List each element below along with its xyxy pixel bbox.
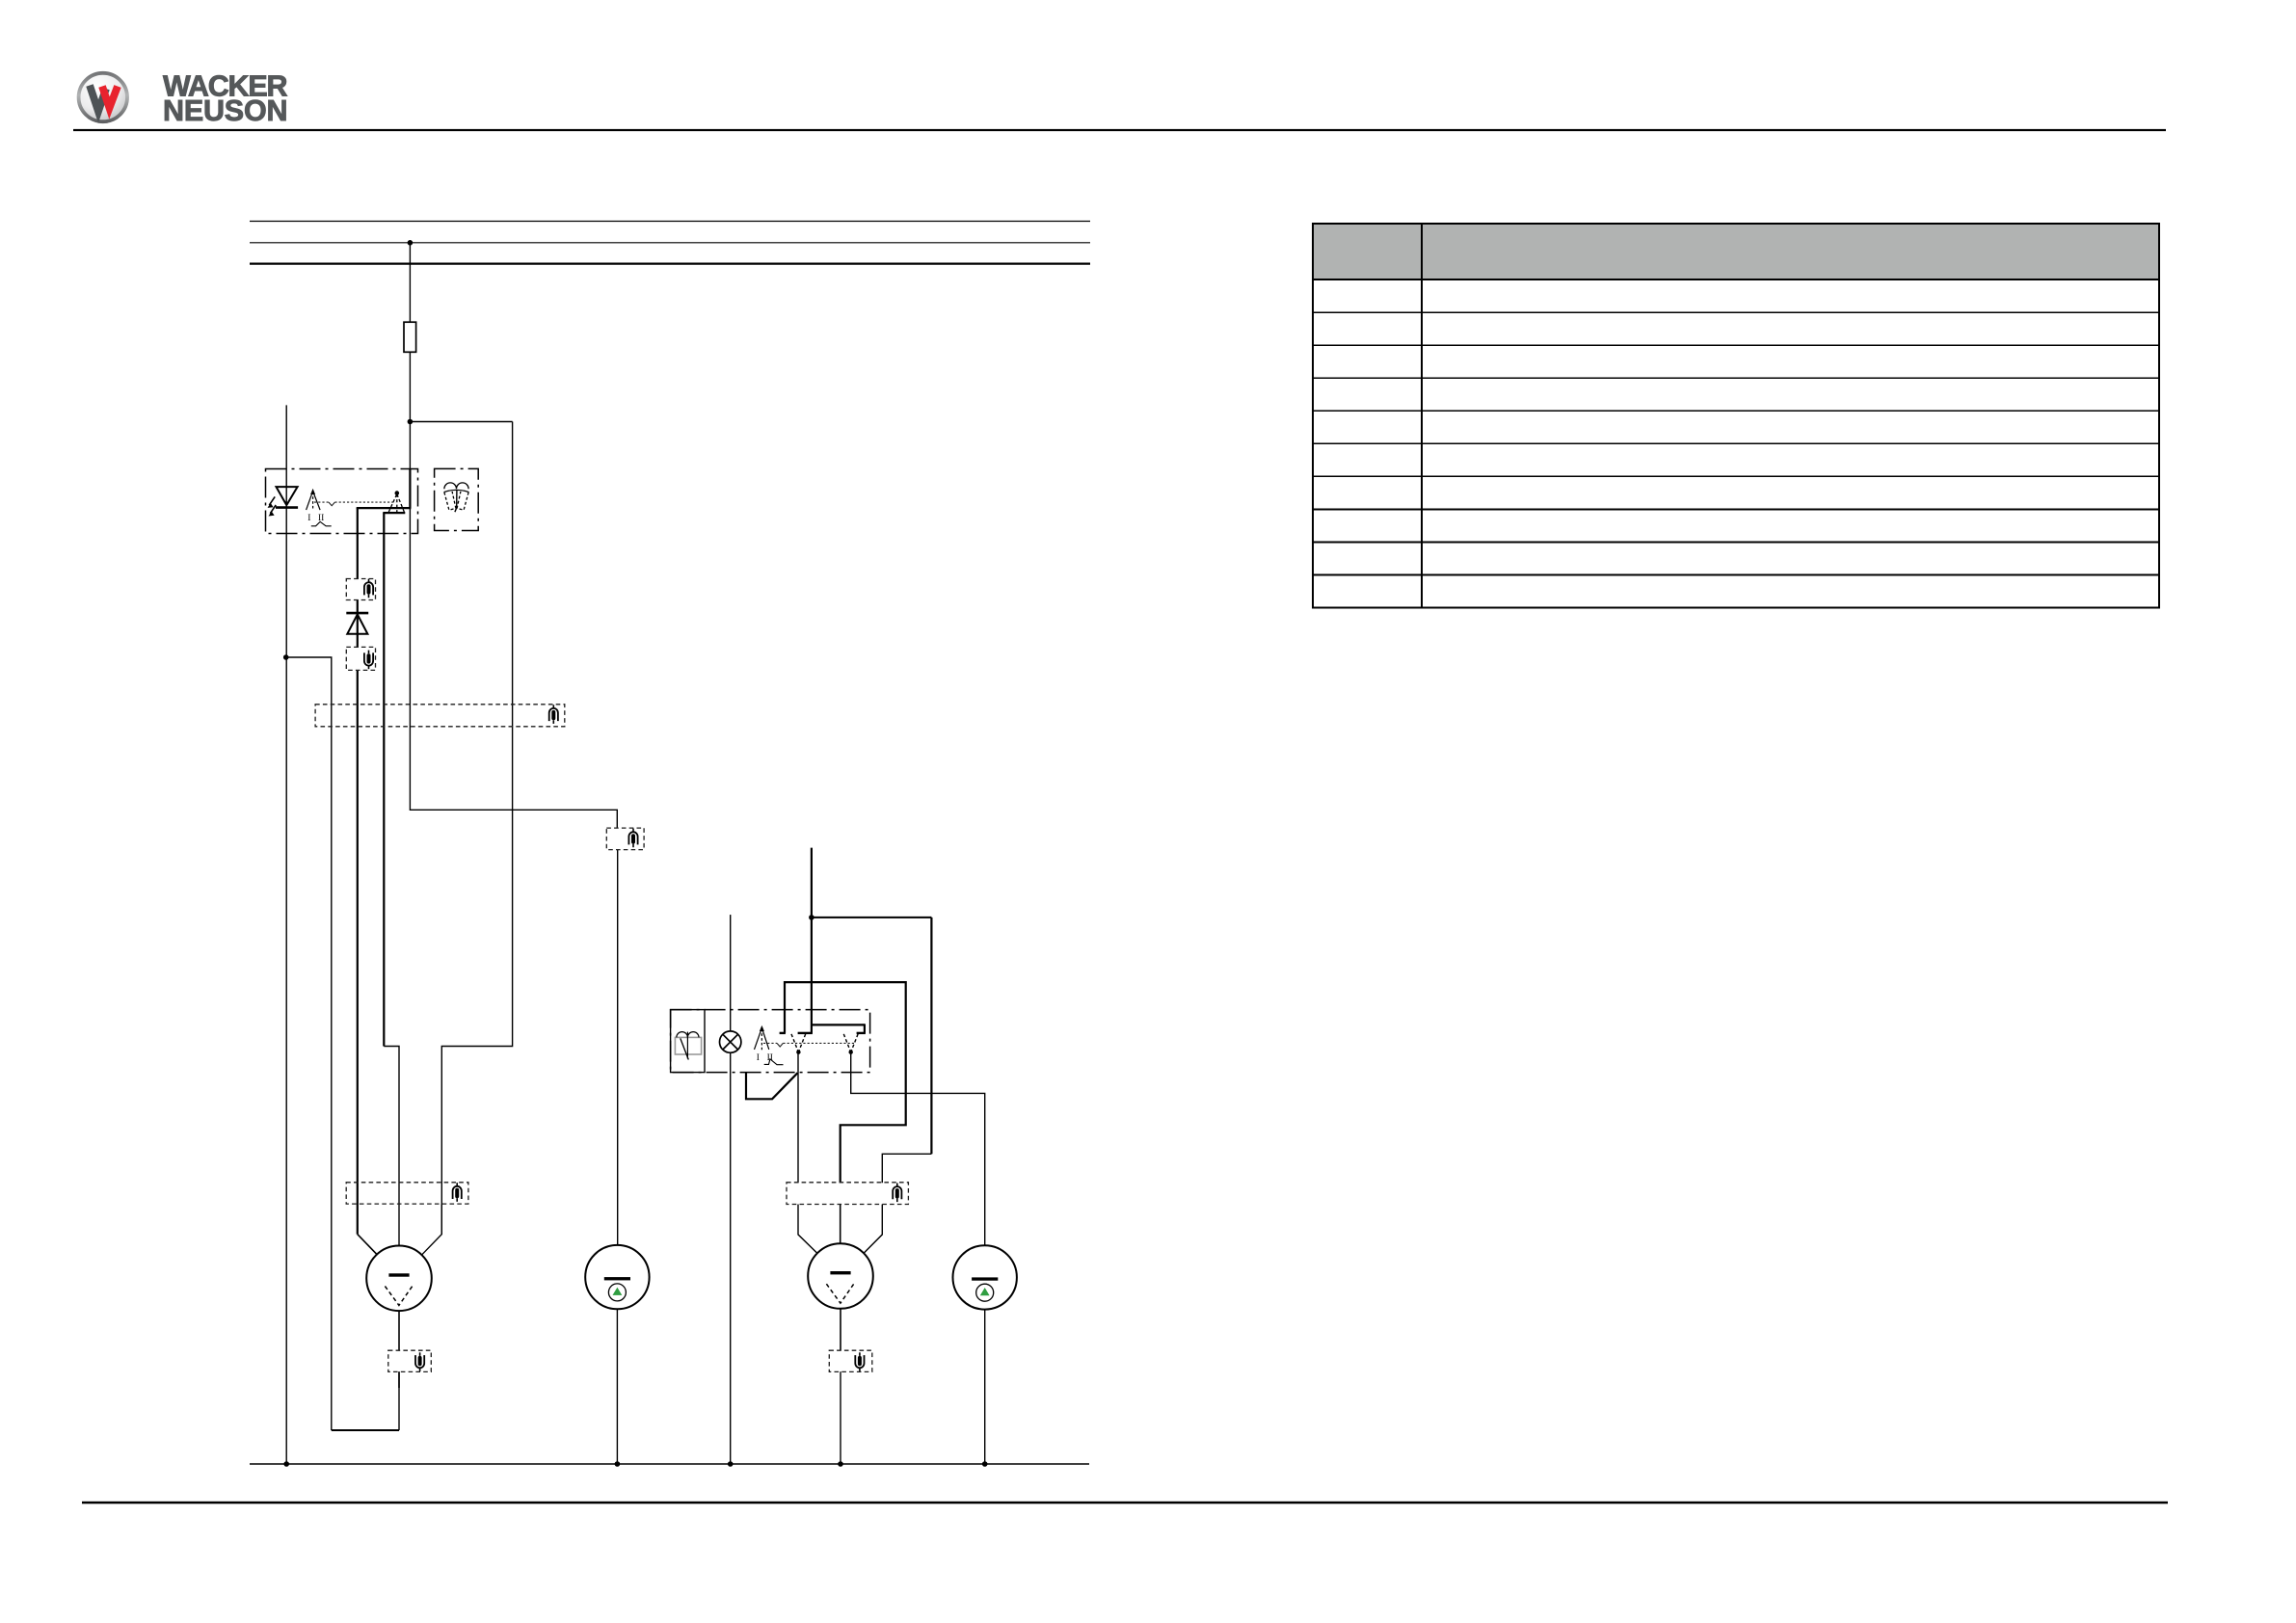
svg-text:I: I [307,514,310,523]
svg-text:NEUSON: NEUSON [163,94,287,127]
svg-text:I: I [757,1053,760,1063]
